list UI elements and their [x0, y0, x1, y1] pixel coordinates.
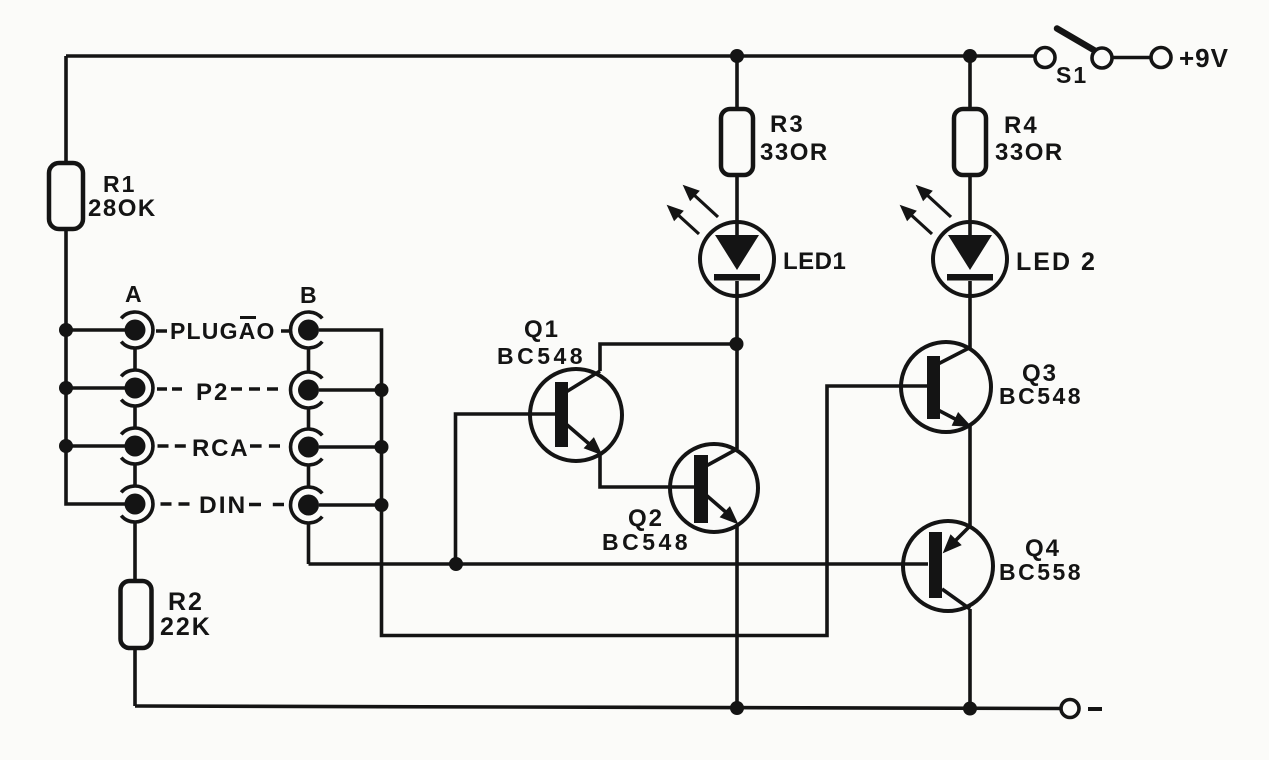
arrowhead Q4 emitter PNP pointing to base bar	[944, 536, 960, 552]
wire jack B DIN down to node line	[307, 523, 311, 564]
svg-text:P2: P2	[196, 379, 229, 406]
svg-text:33OR: 33OR	[995, 139, 1064, 166]
wire link jack B2-B3	[307, 408, 311, 429]
wire tap up to Q1 base	[456, 414, 556, 564]
wire LED1 down to Q2 collector	[735, 296, 739, 449]
node dot Q1 collector junction	[730, 337, 744, 351]
wire link jack A1-A2	[133, 348, 137, 370]
node dot top rail R4 branch	[963, 49, 977, 63]
wire link jack B3-B4	[307, 465, 311, 487]
wire top supply rail	[66, 54, 1035, 58]
transistor Q1	[530, 369, 622, 461]
wire stub B RCA to rail	[319, 445, 382, 449]
node dot B rail RCA row	[375, 440, 389, 454]
svg-text:BC548: BC548	[602, 529, 691, 555]
wire Q2 emitter down to bottom rail	[735, 524, 739, 708]
wire link jack A3-A4	[133, 464, 137, 486]
jack B PLUGAO	[291, 312, 323, 348]
jack A DIN	[121, 486, 153, 522]
svg-text:28OK: 28OK	[88, 195, 157, 222]
wire bottom rail	[135, 706, 1061, 709]
wire S1 to +9V terminal	[1113, 56, 1151, 60]
svg-text:Q2: Q2	[628, 505, 664, 532]
arrowhead Q1 emitter	[585, 438, 601, 454]
arrowhead Q2 emitter	[721, 507, 737, 523]
svg-text:R1: R1	[103, 171, 136, 197]
jack B DIN	[291, 487, 323, 523]
svg-text:R2: R2	[168, 588, 204, 616]
node dot bottom rail Q2 emitter	[730, 701, 744, 715]
jack B P2	[291, 372, 323, 408]
svg-text:DIN: DIN	[199, 492, 247, 519]
wire base bus to Q4 base	[309, 562, 929, 566]
wire stub rail to jack A1	[66, 328, 125, 332]
node dot left rail PLUGAO row	[59, 323, 73, 337]
transistor Q4	[903, 521, 993, 611]
jack A RCA	[121, 428, 153, 464]
resistor R2	[121, 581, 152, 648]
node dot B rail P2 row	[375, 383, 389, 397]
terminal negative circle	[1061, 700, 1079, 718]
wire left drop from rail to R1	[64, 56, 68, 163]
label minus dash	[1088, 707, 1102, 711]
wire R4 to LED2	[968, 175, 972, 235]
jack B RCA	[291, 429, 323, 465]
wire stub B DIN to rail	[319, 503, 382, 507]
wire Q1 emitter to Q2 base	[600, 452, 694, 487]
resistor R1	[49, 163, 83, 229]
label PLUGAO with macron and dashes	[156, 318, 292, 345]
wire Q4 collector down to bottom rail	[968, 609, 972, 709]
jack A PLUGAO	[121, 312, 153, 348]
label P2 with dashes	[157, 379, 278, 406]
svg-text:BC548: BC548	[497, 343, 586, 369]
svg-text:+9V: +9V	[1179, 43, 1229, 73]
wire Q3 emitter down to Q4	[968, 426, 972, 526]
jack A P2	[121, 370, 153, 406]
transistor Q2	[670, 444, 758, 532]
LED2 light arrow 1	[917, 186, 951, 217]
svg-text:BC548: BC548	[999, 383, 1083, 409]
svg-text:22K: 22K	[160, 613, 212, 641]
switch S1 lever	[1057, 29, 1096, 52]
svg-text:R4: R4	[1004, 112, 1039, 139]
switch S1 contact circle right	[1092, 48, 1112, 68]
svg-text:R3: R3	[770, 111, 805, 138]
wire Q1 collector to LED1 branch	[600, 344, 736, 371]
svg-text:S1: S1	[1056, 62, 1088, 88]
wire stub rail to jack A3	[66, 444, 125, 448]
terminal +9V circle	[1151, 48, 1171, 68]
svg-text:RCA: RCA	[192, 435, 249, 462]
wire stub rail to jack A2	[66, 386, 125, 390]
wire LED1 branch top	[735, 56, 739, 109]
wire LED2 branch top	[968, 56, 972, 109]
wire LED2 down to Q3 collector	[968, 296, 972, 348]
node dot left rail P2 row	[59, 381, 73, 395]
node dot base bus tap	[449, 557, 463, 571]
svg-text:33OR: 33OR	[760, 139, 829, 166]
wire left rail below R1 down to DIN row	[66, 229, 125, 504]
node dot bottom rail Q4 collector	[963, 702, 977, 716]
switch S1 contact circle left	[1035, 48, 1055, 68]
resistor R4	[954, 109, 986, 175]
svg-text:A: A	[125, 281, 142, 307]
svg-text:LED 2: LED 2	[1016, 248, 1097, 276]
LED1 light arrow 2	[668, 206, 699, 234]
wire link jack A2-A3	[133, 406, 137, 428]
svg-text:B: B	[300, 282, 317, 308]
node dot left rail RCA row	[59, 439, 73, 453]
LED2 light arrow 2	[901, 206, 932, 234]
LED LED1	[700, 222, 774, 296]
label DIN with dashes	[161, 492, 285, 519]
svg-text:Q4: Q4	[1025, 535, 1061, 562]
svg-text:Q1: Q1	[524, 316, 560, 343]
label RCA with dashes	[158, 435, 281, 462]
wire R3 to LED1	[735, 175, 739, 235]
node dot B rail DIN row	[375, 498, 389, 512]
LED1 light arrow 1	[684, 186, 718, 217]
svg-text:PLUGAO: PLUGAO	[170, 318, 276, 344]
LED LED2	[933, 222, 1007, 296]
resistor R3	[721, 109, 753, 175]
svg-text:BC558: BC558	[999, 559, 1083, 585]
node dot top rail R3 branch	[730, 49, 744, 63]
wire stub B P2 to rail	[319, 388, 382, 392]
wire B right rail: PLUGAO right, down, bottom run, up to Q3 base	[319, 330, 927, 636]
transistor Q3	[901, 342, 991, 432]
arrowhead Q3 emitter	[953, 413, 970, 426]
svg-text:LED1: LED1	[783, 248, 846, 275]
wire R2 down to bottom rail	[133, 648, 137, 706]
wire jack A DIN down to R2	[133, 522, 137, 581]
wire link jack B1-B2	[307, 348, 311, 372]
